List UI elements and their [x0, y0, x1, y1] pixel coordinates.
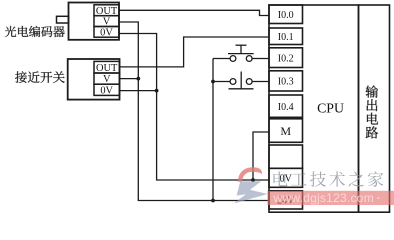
svg-text:OUT: OUT	[96, 63, 118, 74]
svg-text:0V: 0V	[280, 173, 293, 184]
svg-text:www.dgjs123.com: www.dgjs123.com	[273, 191, 374, 205]
svg-text:I0.3: I0.3	[278, 77, 294, 88]
svg-text:I0.2: I0.2	[278, 53, 294, 64]
svg-text:-: -	[377, 192, 381, 204]
svg-text:V: V	[103, 17, 111, 28]
svg-text:V: V	[103, 74, 111, 85]
svg-text:I0.0: I0.0	[278, 10, 294, 21]
svg-text:M: M	[280, 124, 291, 138]
svg-text:I0.1: I0.1	[278, 32, 294, 43]
svg-text:I0.4: I0.4	[278, 102, 294, 113]
svg-text:0V: 0V	[100, 27, 113, 38]
svg-text:0V: 0V	[100, 85, 113, 96]
svg-text:CPU: CPU	[317, 100, 344, 115]
svg-text:OUT: OUT	[96, 6, 118, 17]
